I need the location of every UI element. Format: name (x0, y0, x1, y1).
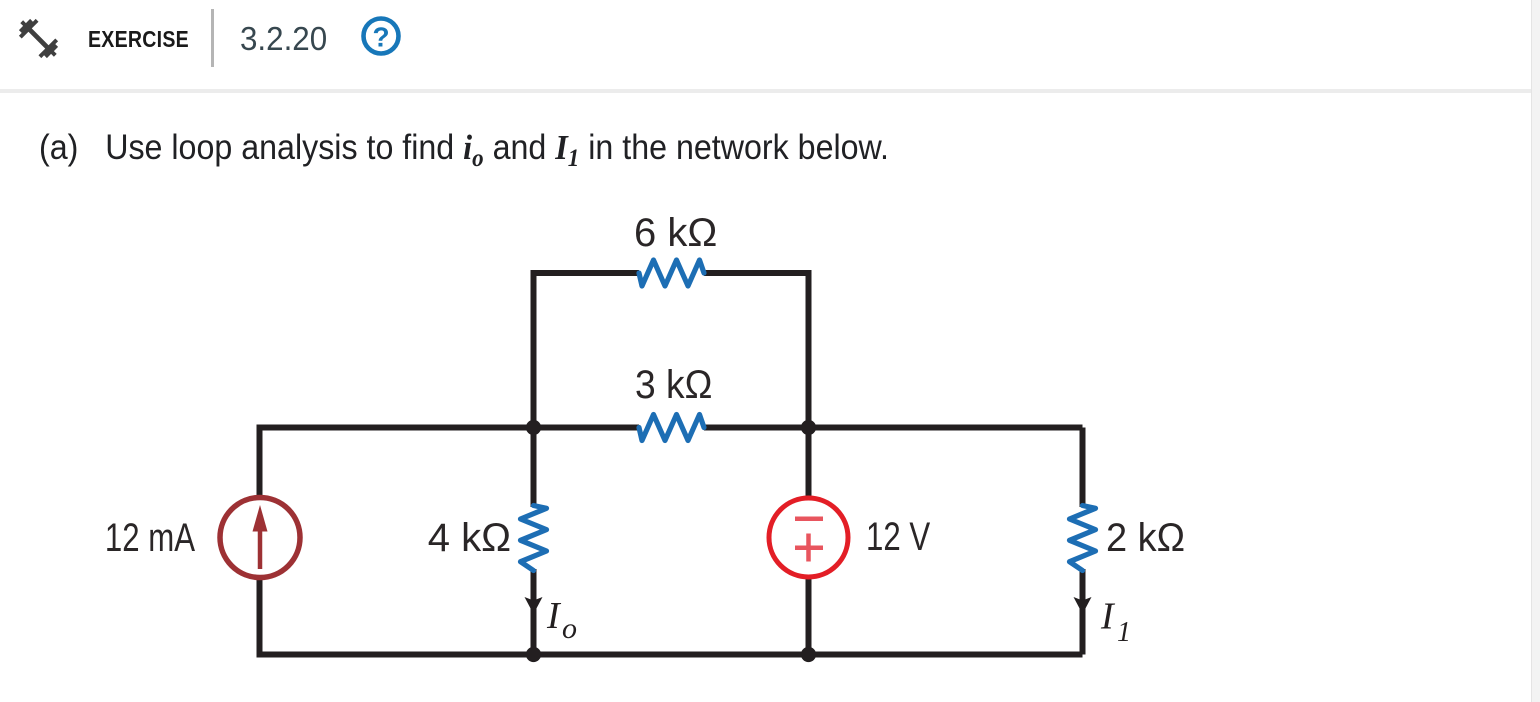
svg-text:I: I (1100, 596, 1116, 638)
question line (a) (39, 128, 889, 179)
svg-text:12 mA: 12 mA (105, 515, 195, 560)
svg-text:I: I (546, 595, 562, 637)
wire top-right segment (704, 273, 809, 430)
svg-text:2 kΩ: 2 kΩ (1106, 516, 1185, 560)
exercise number 3.2.20 (240, 22, 327, 55)
resistor R 6k zigzag (639, 260, 704, 286)
resistor R 4k zigzag (521, 506, 547, 571)
wire bottom rail (260, 652, 1083, 658)
current source 12mA circle (220, 498, 300, 578)
voltage source minus sign (795, 517, 823, 522)
EXERCISE label (88, 28, 189, 51)
resistor R 3k zigzag (639, 415, 704, 441)
resistor R 2k zigzag (1070, 506, 1096, 571)
junction dot mid-B (801, 420, 816, 435)
svg-text:4 kΩ: 4 kΩ (428, 516, 511, 560)
wire branch B vertical (806, 428, 812, 658)
junction dot bottom-B (801, 647, 816, 662)
svg-text:o: o (562, 612, 577, 645)
wire top-left segment (534, 273, 640, 430)
current arrow Io (525, 597, 543, 614)
svg-text:12 V: 12 V (866, 514, 930, 559)
current source arrow (258, 528, 263, 569)
svg-text:6 kΩ: 6 kΩ (634, 211, 717, 255)
scrollbar strip (1531, 0, 1540, 702)
voltage source plus sign (795, 534, 823, 562)
current arrow I1 (1074, 597, 1092, 614)
wire right branch vertical (1080, 428, 1086, 655)
header divider line (0, 89, 1532, 94)
header vertical divider (211, 9, 214, 67)
svg-text:1: 1 (1117, 617, 1131, 648)
dumbbell exercise icon (15, 15, 62, 62)
voltage source 12V circle (769, 498, 848, 577)
junction dot mid-A (526, 420, 541, 435)
junction dot bottom-A (526, 647, 541, 662)
wire middle rail (260, 425, 1083, 431)
svg-text:3 kΩ: 3 kΩ (635, 363, 712, 408)
wire left branch vertical (257, 425, 263, 658)
help question icon (359, 14, 403, 58)
wire branch A vertical (531, 428, 537, 655)
